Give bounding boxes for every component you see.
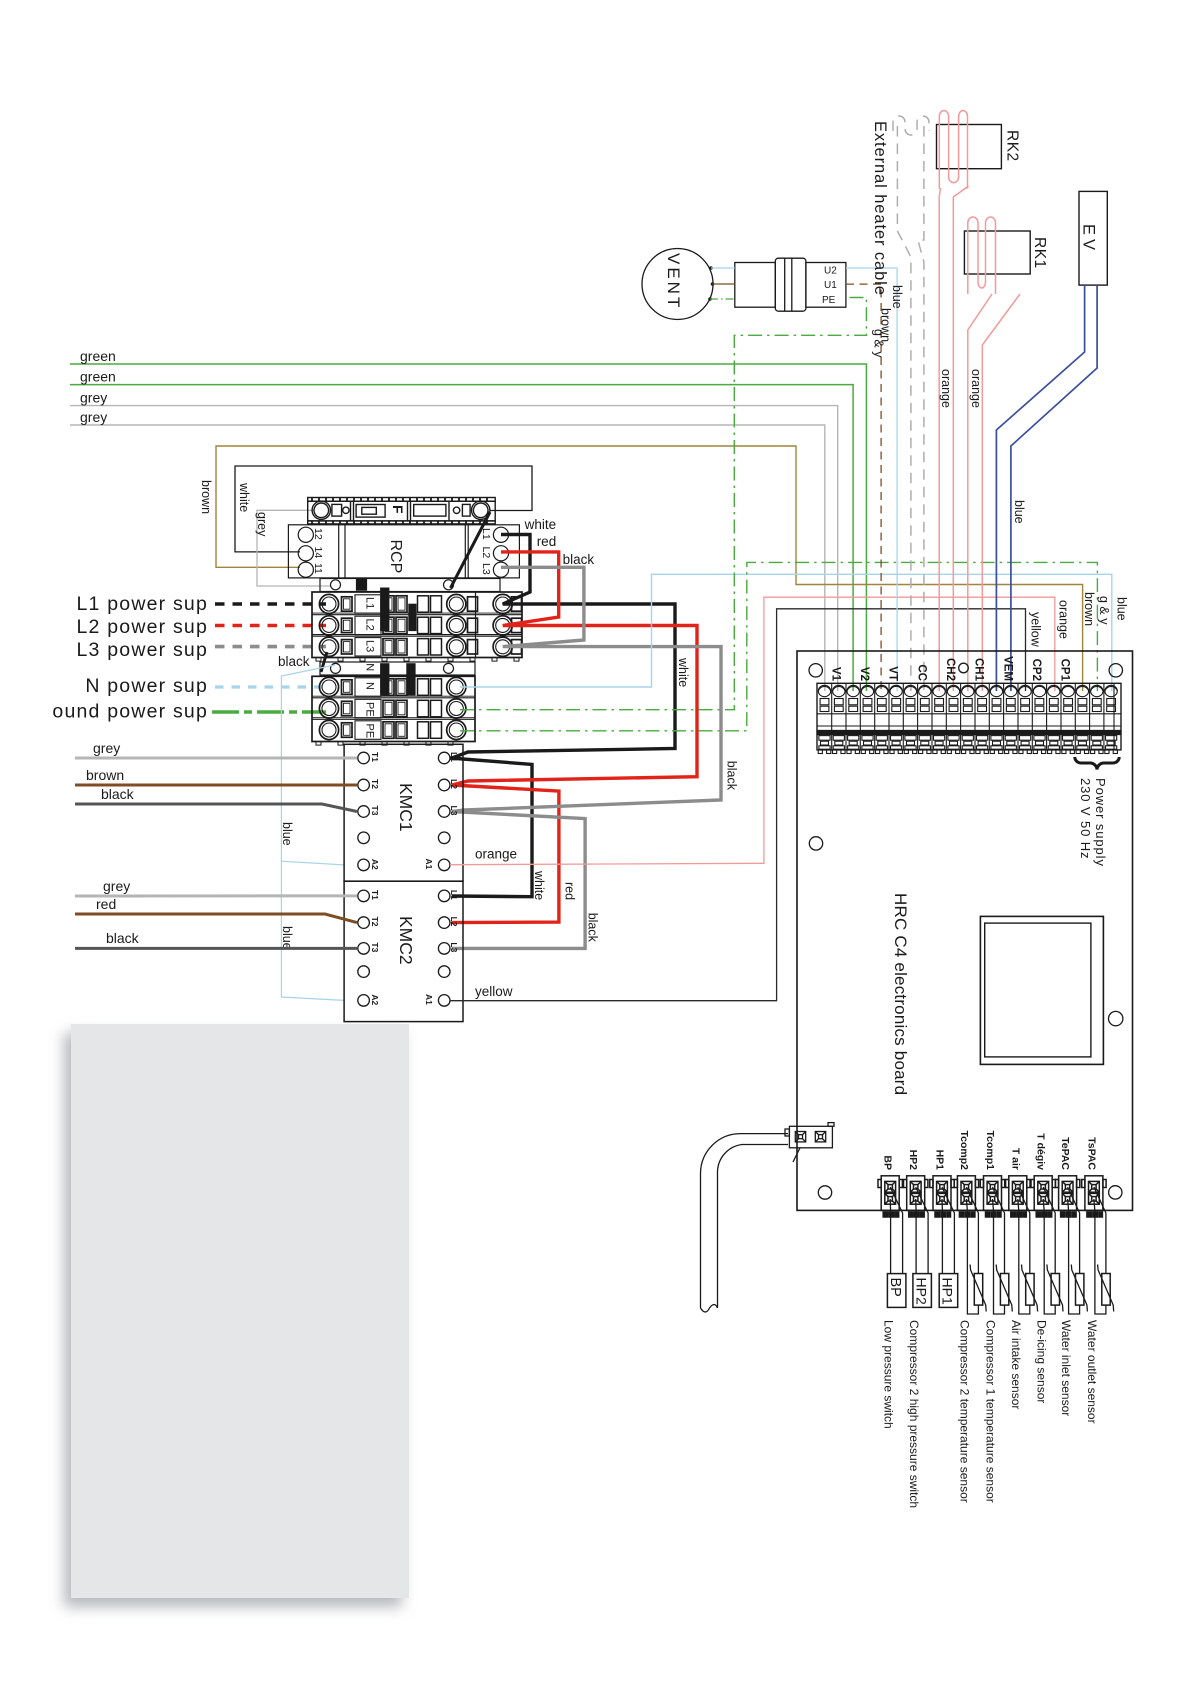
svg-text:EV: EV [1080,224,1098,254]
connector VENT plug [735,258,846,311]
cable power inlet [701,1134,789,1312]
svg-text:Water inlet sensor: Water inlet sensor [1059,1320,1073,1416]
brace power supply [1075,757,1119,770]
terminal block L1 L2 L3 [312,579,522,662]
svg-text:brown: brown [199,480,213,514]
svg-text:HRC C4 electronics board: HRC C4 electronics board [891,893,910,1095]
svg-text:yellow: yellow [475,984,513,999]
svg-text:TePAC: TePAC [1059,1137,1071,1170]
svg-text:g & y: g & y [1097,596,1111,625]
svg-text:T1: T1 [370,752,380,762]
svg-text:black: black [101,786,135,802]
wire green 1 (to board terminal V2b) [70,348,866,691]
wire blue VENT U2 [711,267,735,269]
thermistor Tcomp1 [1000,1274,1008,1306]
thermistor T air [1026,1274,1034,1306]
svg-text:V1: V1 [829,667,841,682]
svg-text:black: black [278,654,310,669]
wire white enclosure loop (RCP 14 to fuse F right) [235,466,532,552]
svg-text:red: red [563,882,577,900]
wire brown to KMC1 T2 [75,784,357,787]
svg-text:BP: BP [882,1155,894,1170]
svg-text:N: N [364,663,376,671]
svg-text:blue: blue [1012,500,1026,524]
svg-text:A1: A1 [424,994,434,1005]
svg-text:L1: L1 [449,890,459,900]
svg-text:De-icing sensor: De-icing sensor [1034,1320,1048,1403]
svg-text:PE: PE [822,295,836,306]
svg-text:RK2: RK2 [1004,130,1021,162]
thermistor TsPAC [1102,1274,1110,1306]
mounting holes board [809,663,1123,1199]
svg-text:Air intake sensor: Air intake sensor [1009,1320,1023,1409]
svg-text:white: white [237,482,251,512]
svg-text:CP2: CP2 [1030,659,1042,681]
wire red to KMC2 T2 [75,914,357,923]
svg-text:L2: L2 [449,779,459,789]
svg-text:orange: orange [1057,600,1071,639]
wire L1 power supply (black dashed) [77,593,326,615]
display window [980,916,1103,1064]
svg-text:HP2: HP2 [913,1278,929,1305]
svg-text:grey: grey [80,390,107,406]
svg-text:External heater cable: External heater cable [871,121,889,296]
wire L2 power supply (red dashed) [77,616,326,638]
svg-text:grey: grey [93,740,120,756]
contactor KMC2 [344,881,463,1021]
svg-text:L1 power sup: L1 power sup [77,593,208,615]
wire grey/black (RCP L3 - terminal - KMC1 L3 - KMC2 L3) [452,567,721,948]
svg-text:green: green [80,348,116,364]
svg-text:PE: PE [364,702,376,717]
svg-text:orange: orange [939,369,953,408]
svg-text:A1: A1 [424,859,434,870]
svg-text:14: 14 [312,547,324,559]
svg-text:F: F [390,505,406,514]
board HRC C4 electronics [797,651,1133,1210]
svg-text:L3: L3 [480,563,492,575]
svg-text:grey: grey [103,878,130,894]
svg-text:Power supply: Power supply [1093,778,1108,867]
svg-text:KMC1: KMC1 [396,783,416,832]
relay RK1 [964,231,1030,274]
svg-text:L2: L2 [364,619,376,631]
svg-text:T3: T3 [370,942,380,952]
fuse strip F [308,498,496,524]
svg-text:TsPAC: TsPAC [1085,1137,1097,1170]
wire green 2 (to board terminal V2a) [70,369,853,692]
svg-text:CC: CC [915,664,927,681]
svg-text:RK1: RK1 [1031,237,1048,269]
svg-text:U2: U2 [824,266,837,277]
svg-text:brown: brown [86,767,124,783]
svg-text:blue: blue [280,822,294,846]
wire g&y (PE row2 to board terminal 20) [460,562,1097,730]
connector plug T dégiv [1031,1176,1055,1217]
connector plug HP1 [930,1176,954,1217]
connector plug HP2 [904,1176,928,1217]
svg-text:230 V 50 Hz: 230 V 50 Hz [1078,778,1093,859]
svg-text:L3: L3 [449,806,459,816]
svg-text:Water outlet sensor: Water outlet sensor [1085,1320,1099,1424]
wire black to KMC2 T3 [75,947,357,950]
svg-text:11: 11 [312,563,324,574]
wire yellow (KMC2 A1 to board terminal CP2a) [450,609,1026,1001]
wire orange pair through RK1 (to board CH1) [968,217,996,294]
sensor wires HP2 [916,1187,928,1274]
svg-text:N power sup: N power sup [85,675,208,697]
wire N power supply (light blue dashed) [85,675,326,697]
svg-text:CH2: CH2 [944,658,956,681]
svg-text:T dégiv: T dégiv [1035,1133,1047,1170]
svg-text:T2: T2 [370,917,380,927]
svg-text:green: green [80,369,116,385]
svg-text:L1: L1 [449,752,459,762]
svg-text:A2: A2 [370,859,380,870]
wire grey 2 (to board terminal V1a) [70,409,825,691]
wire blue pair EV (to board VEM) [996,285,1097,691]
svg-text:red: red [537,534,557,549]
svg-text:Tcomp1: Tcomp1 [984,1131,996,1171]
wire L3 power supply (grey dashed) [77,639,326,661]
wire brown VENT U1 (dashed) [713,283,735,285]
svg-text:T air: T air [1009,1148,1021,1170]
svg-text:brown: brown [1082,592,1096,626]
svg-text:VT: VT [887,666,899,681]
terminal block N PE PE [312,662,475,745]
svg-text:VENT: VENT [664,253,683,310]
connector plug TsPAC [1082,1176,1106,1217]
svg-text:ound power sup: ound power sup [52,701,208,723]
wire orange (KMC1 A1 to board terminal CP1a) [450,597,1055,865]
svg-text:black: black [563,552,595,567]
wire g&y (PE row1 up to VENT PE) [460,298,866,710]
thermistor Tcomp2 [974,1274,982,1306]
sensor wires BP [890,1187,902,1274]
svg-text:T3: T3 [370,806,380,816]
thermistor T dégiv [1051,1274,1059,1306]
svg-text:Low pressure switch: Low pressure switch [881,1320,895,1429]
svg-text:orange: orange [969,369,983,408]
svg-text:black: black [106,930,140,946]
svg-text:grey: grey [80,409,107,425]
svg-text:VEM: VEM [1001,656,1013,681]
wire grey 1 (to board terminal V1b) [70,390,838,692]
svg-text:L2: L2 [449,917,459,927]
svg-text:A2: A2 [370,994,380,1005]
svg-text:black: black [585,913,599,943]
svg-text:N: N [364,682,376,690]
cable external heater (grey dashed pair) [893,116,929,691]
sensor wires TePAC [1068,1187,1080,1314]
svg-text:L1: L1 [364,597,376,609]
svg-text:HP1: HP1 [940,1278,956,1305]
node dots VENT terminals [708,266,714,301]
sensor wires T dégiv [1043,1187,1055,1314]
contactor KMC1 [344,744,463,881]
svg-text:grey: grey [255,512,269,537]
svg-text:red: red [96,896,116,912]
wire grey jumper (fuse F left to terminal block top) [255,510,331,586]
connector plug Tcomp1 [980,1176,1004,1217]
wire grey to KMC2 T1 [75,894,357,897]
svg-text:white: white [532,870,546,900]
wire red (RCP L2 - terminal - KMC1 L2 - KMC2 L2) [452,552,697,923]
svg-text:Compressor 1 temperature senso: Compressor 1 temperature sensor [984,1320,998,1503]
svg-text:L3: L3 [364,640,376,652]
sensor wires TsPAC [1094,1187,1106,1314]
svg-text:V2: V2 [858,667,870,681]
svg-text:L3 power sup: L3 power sup [77,639,208,661]
sensor wires T air [1018,1187,1030,1314]
wire white (RCP L1 - terminal - KMC1 L1 - KMC2 L1) [450,535,675,897]
svg-text:blue: blue [1115,597,1129,621]
switch HP2 [913,1274,932,1308]
sensor wires Tcomp2 [966,1187,978,1314]
connector plug BP [878,1176,902,1217]
fan VENT [642,249,713,320]
svg-text:HP1: HP1 [934,1150,946,1171]
valve EV [1079,191,1107,285]
wire blue (N terminal to board terminal 21) [460,574,1112,691]
svg-text:T1: T1 [370,890,380,900]
svg-text:KMC2: KMC2 [396,916,416,965]
svg-text:BP: BP [887,1278,903,1297]
terminal strip 21 poles [817,683,1121,753]
svg-text:CH1: CH1 [973,658,985,682]
svg-text:Compressor 2 temperature senso: Compressor 2 temperature sensor [958,1320,972,1503]
connector power inlet 2-pole [785,1123,834,1162]
wire black to KMC1 T3 [75,804,357,812]
svg-text:L2: L2 [480,547,492,559]
svg-text:black: black [724,761,738,791]
jumper black F right to L1 terminal [451,512,491,588]
connector plug T air [1006,1176,1030,1217]
svg-text:U1: U1 [824,280,837,291]
svg-text:HP2: HP2 [907,1150,919,1171]
wire Ground power supply (green dash-dot) [52,701,326,723]
svg-text:g & y: g & y [872,329,886,358]
wire g&y VENT PE [710,298,735,300]
connector plug TePAC [1055,1176,1079,1217]
sensor wires HP1 [942,1187,954,1274]
switch HP1 [939,1274,958,1308]
relay RCP [288,525,519,578]
svg-text:Compressor 2 high pressure swi: Compressor 2 high pressure switch [907,1320,921,1508]
jumper black between blocks [321,652,327,672]
grey panel card [71,1024,409,1598]
svg-text:PE: PE [364,724,376,739]
svg-text:blue: blue [890,285,904,309]
wire grey to KMC1 T1 [75,757,357,760]
thermistor TePAC [1076,1274,1084,1306]
wire blue branch (N to KMC coils A2) [281,665,344,1000]
svg-text:yellow: yellow [1029,612,1043,648]
svg-text:orange: orange [475,847,517,862]
svg-text:T2: T2 [370,779,380,789]
connector plug Tcomp2 [954,1176,978,1217]
svg-text:white: white [676,657,690,687]
wire brown enclosure loop (RCP 11 to board terminal CP1 area) [199,446,1083,691]
relay RK2 [937,125,1002,169]
wire orange pair through RK2 (to board CH2) [939,110,967,188]
svg-text:RCP: RCP [387,540,404,574]
switch BP [887,1274,906,1308]
svg-text:L3: L3 [449,942,459,952]
svg-text:blue: blue [280,926,294,950]
svg-text:Tcomp2: Tcomp2 [958,1131,970,1171]
svg-text:L2 power sup: L2 power sup [77,616,208,638]
svg-text:12: 12 [312,528,324,540]
svg-text:white: white [524,517,557,532]
sensor wires Tcomp1 [993,1187,1005,1314]
svg-text:CP1: CP1 [1059,659,1071,682]
